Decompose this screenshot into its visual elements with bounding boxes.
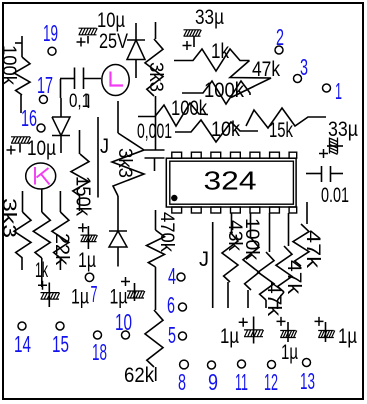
svg-text:9: 9 [208, 369, 218, 395]
svg-text:1µ: 1µ [71, 286, 89, 309]
resistor R-100k lower (horizontal) [138, 103, 208, 126]
resistor R-47k-c (vertical) [269, 213, 271, 252]
capacitor E6 1u with hatch plate [325, 322, 327, 342]
connector circle K [26, 163, 56, 189]
capacitor E5 1u with hatch plate [287, 322, 289, 342]
resistor R-15k (horizontal) [246, 108, 326, 128]
capacitor C-10u left with hatch plate [19, 144, 21, 153]
svg-text:47k: 47k [263, 282, 284, 317]
capacitor E3 1u with hatch plate [134, 283, 136, 301]
svg-text:100k: 100k [171, 97, 207, 120]
node 14 [18, 322, 26, 330]
node 18 [94, 331, 102, 339]
resistor R-3k3 mid (vertical, wide) [117, 101, 119, 133]
resistor R-150k (vertical) [79, 130, 81, 154]
svg-text:100k: 100k [204, 79, 244, 102]
node 10 [122, 331, 130, 339]
capacitor C-0.01 (horizontal) [306, 173, 321, 175]
capacitor C-33u right with vertical hatch plate [327, 145, 343, 147]
wire cap to diode D2 [60, 79, 62, 98]
resistor R-1k (horizontal) [174, 49, 250, 71]
svg-text:1µ: 1µ [338, 325, 357, 348]
resistor R-22k (vertical) [59, 191, 61, 212]
svg-text:8: 8 [178, 369, 186, 395]
wire J2 vertical [212, 222, 214, 308]
svg-text:470k: 470k [156, 212, 177, 252]
svg-text:3k3: 3k3 [114, 148, 135, 178]
svg-text:47k: 47k [302, 230, 323, 269]
wire J1 vertical [86, 94, 88, 96]
node 13 [303, 359, 311, 367]
capacitor C-33u top with hatch plate [193, 36, 195, 47]
svg-text:J: J [199, 248, 209, 271]
resistor R-3k3 (top, vertical) [155, 22, 157, 39]
resistor R-100k2 (vertical) [250, 213, 252, 238]
svg-text:15k: 15k [269, 119, 293, 142]
svg-text:22k: 22k [51, 233, 72, 266]
diode D1 (cathode up) [135, 23, 137, 40]
capacitor E1 1u with hatch plate [87, 226, 89, 249]
svg-text:1: 1 [335, 78, 342, 104]
node 12 [268, 361, 276, 369]
svg-text:1k: 1k [35, 259, 48, 282]
svg-text:1µ: 1µ [110, 286, 128, 309]
resistor R-47k-a (vertical) [306, 202, 308, 224]
svg-text:10k: 10k [211, 118, 240, 141]
svg-text:1k: 1k [211, 40, 229, 63]
svg-text:10µ: 10µ [27, 137, 56, 160]
resistor R-10k (horizontal) [175, 120, 258, 142]
svg-text:150k: 150k [72, 176, 94, 217]
capacitor C-0,1 (horizontal) [60, 78, 74, 80]
svg-text:100k: 100k [0, 45, 19, 85]
resistor R-100k upper (horizontal) [182, 81, 250, 104]
svg-text:0,001: 0,001 [137, 120, 172, 143]
svg-text:3k3: 3k3 [145, 62, 166, 92]
svg-text:11: 11 [235, 369, 248, 395]
svg-text:7: 7 [91, 281, 98, 307]
svg-text:13: 13 [300, 368, 315, 394]
svg-text:33µ: 33µ [328, 118, 358, 141]
svg-text:4: 4 [168, 263, 176, 289]
resistor R-47k (diagonal) [230, 61, 271, 98]
IC bottom pins [172, 207, 182, 213]
svg-text:47k: 47k [252, 58, 280, 81]
svg-text:1µ: 1µ [281, 341, 298, 364]
svg-text:14: 14 [14, 331, 31, 357]
svg-text:10: 10 [115, 309, 132, 335]
resistor R-3k3 left (vertical) [22, 191, 24, 212]
svg-text:17: 17 [37, 72, 53, 98]
connector circle L [102, 65, 129, 96]
capacitor E2 1u with hatch plate [48, 283, 50, 308]
IC top pins [172, 152, 182, 158]
svg-text:3k3: 3k3 [0, 198, 19, 238]
svg-text:0.01: 0.01 [321, 184, 349, 207]
node 9 [208, 361, 216, 369]
svg-text:1µ: 1µ [220, 325, 239, 348]
resistor R-100k (left edge, vertical) [15, 42, 22, 44]
svg-text:18: 18 [92, 339, 107, 365]
svg-text:16: 16 [21, 105, 37, 131]
node 8 [180, 360, 189, 369]
svg-text:6: 6 [167, 292, 175, 318]
node 15 [56, 322, 64, 330]
resistor R-43k (vertical) [231, 213, 233, 232]
capacitor E4 1u with hatch plate [253, 317, 255, 344]
diode D3 (cathode up) [117, 196, 119, 231]
op-amp IC U1 324 body [166, 158, 296, 207]
svg-text:62k: 62k [124, 364, 154, 387]
diode D2 (pointing down) [60, 98, 62, 117]
svg-text:15: 15 [52, 331, 69, 357]
svg-text:19: 19 [43, 20, 58, 46]
node 11 [238, 360, 246, 368]
svg-text:12: 12 [264, 369, 278, 395]
resistor R-47k-b (vertical) [288, 213, 290, 246]
svg-text:324: 324 [204, 166, 257, 196]
capacitor C-10u-25V with polarized plate and ground-style hatch [87, 36, 89, 44]
svg-text:25V: 25V [99, 30, 128, 53]
svg-text:5: 5 [168, 322, 176, 348]
resistor R-1k low (vertical from K) [41, 189, 43, 212]
svg-text:J: J [100, 135, 109, 158]
resistor R-470k (vertical) [155, 210, 157, 230]
capacitor C-0,001 (vertical) [155, 148, 157, 150]
svg-text:1µ: 1µ [78, 249, 96, 272]
resistor R-62k (vertical) [145, 310, 163, 367]
IC pin-1 marker dot [171, 195, 177, 201]
svg-text:100k: 100k [241, 218, 262, 261]
svg-text:33µ: 33µ [195, 6, 224, 29]
svg-text:10µ: 10µ [97, 9, 125, 32]
